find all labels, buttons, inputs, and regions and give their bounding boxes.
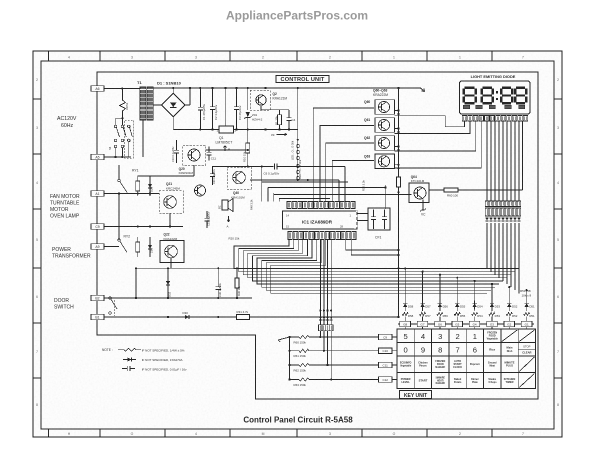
wire 5V rail segment [206,149,248,151]
wire bus IC1 bottom pins to key matrix rails [234,240,519,269]
frame right band tick marks [554,98,562,100]
resistor R57 [422,310,424,312]
wire interlock tie [116,117,123,119]
transistor Q40 KRA101M [227,167,251,189]
diode D52 [508,301,510,310]
wire rail C6 [213,165,274,167]
connector C9 on board left edge [91,224,104,230]
IC1 bottom pin row [288,232,292,240]
wire B1 row [104,316,183,318]
ceramic resonator CF1 [368,208,390,230]
wire A9 row [104,246,119,248]
wire Q64 base [274,194,412,196]
resistor R66 100 [429,189,444,191]
wire A6 to transformer primary top [104,88,140,90]
relay RY1 contact [118,179,120,181]
wire B2 branch vertical [135,268,137,298]
arrow VA [278,337,290,342]
LED chain R11 30k [296,144,299,147]
capacitor C20 0.1u50v [212,166,214,174]
diode D58 [404,301,406,310]
transistor Q62 [375,136,395,151]
drawing frame outer border [33,51,562,437]
connector A1 on board left edge [91,191,104,197]
door switch contacts [109,297,112,300]
wire A1 row [104,193,159,195]
relay RY1 coil resistor [137,176,139,181]
regulator Q1 LM7805CT [219,126,234,133]
capacitor C10 0.1u25v [176,140,178,150]
connector column C9-C12 [379,334,393,339]
connector A6 on board left edge [91,86,104,92]
wire bus left fan into IC1 top pins [261,166,263,201]
frame bottom band tick dividers [48,429,50,437]
wire bus IC1 top pins to display drivers [313,108,374,202]
transistor Q63 [375,154,395,169]
drawing frame inner border [41,61,554,429]
connector A9 on board left edge [91,244,104,250]
resistor R10 15k [247,130,249,143]
transistor Q23 KRA101M [195,185,206,196]
LED chain R12 30k [296,164,299,167]
wire Q20 to relay coil [193,165,195,176]
wire VD vertical rail [398,88,400,171]
interlock monitor switch dashed enclosure [125,120,133,158]
resistor R51 [526,310,528,312]
transistor Q2 KRA121M [250,90,270,110]
keyboard rows common vertical [289,337,291,380]
diode D32 [167,268,169,298]
frame left band tick marks [33,98,41,100]
wire DC rail [173,129,219,131]
resistor array RA1 [485,208,489,216]
IC1 IZA689DR body [283,211,356,229]
arrow A below regulator [224,146,227,152]
control unit board outline [97,72,538,399]
display annunciator boxes [463,105,469,108]
varistor VRS1 [119,100,125,111]
diode D20 [149,176,151,196]
resistor R53 [491,310,493,312]
diode D55 [456,301,458,310]
LED display module outline [460,81,531,114]
wire VB rail [136,267,399,269]
keyboard row wires with resistors [290,336,300,338]
wire Q21 to RY2 [169,213,171,227]
connector row G8-G1 [398,323,534,325]
capacitor C11 [208,147,210,153]
display colon [496,91,498,93]
zener diode Z01 HZA4-2 [247,88,249,110]
resistor R54 [474,310,476,312]
keyboard scan connector boxes [319,325,323,331]
wire C9 row [104,226,183,228]
wire digit select staircase [395,116,465,127]
bridge rectifier D1 [162,93,185,116]
relay RY2 contact [118,239,120,241]
scan noise overlay [0,0,1,1]
wire keyboard columns to rails [404,269,406,301]
relay RY2 coil resistor [137,237,139,242]
resistor R55 [456,310,458,312]
seven segment digit 2 [482,86,492,89]
transformer T1 windings [140,87,146,120]
capacitor C2 3.3u50v [212,88,214,107]
wire top supply rail [153,87,420,89]
svg-text:AppliancePartsPros.com: AppliancePartsPros.com [226,9,368,23]
seven segment digit 1 [465,86,475,89]
seven segment digit 4 [516,86,525,89]
interlock switch S1 [114,125,117,128]
resistor R1 15k [279,110,281,115]
resistor R50 3.3k [398,171,400,177]
wire Q64 emitter to VC [422,200,424,211]
wire relay chain vertical [118,194,120,241]
wire CF1 to IC1 [357,213,368,215]
transistor Q60 [375,100,395,115]
wire bridge top to rail [172,88,174,93]
connector B1 on board left edge [91,314,104,320]
capacitor C21 17u50v [206,211,208,218]
wire IC1 bottom pin stub to VD rail [346,240,399,251]
buzzer BZ [222,200,228,210]
wire regulator input drop [225,88,227,126]
wire VC riser [297,88,299,180]
diode D57 [422,301,424,310]
wire bus IC1 top pins aux [338,180,340,202]
diode D51 [526,301,528,310]
capacitor C1 470u25v [199,88,201,107]
wire rail lower [250,179,339,181]
capacitor C4 [288,110,290,118]
diode marks below resistor array [485,218,488,221]
display pin connector row [462,116,467,122]
resistor R30 15k [236,268,238,278]
diode D54 [474,301,476,310]
diode D53 [491,301,493,310]
wire A5 to interlock [104,156,131,158]
wire B2 row [104,297,252,299]
resistor R56 [439,310,441,312]
wire bus display segment columns [486,121,488,201]
supply rail end arrow VD [420,88,424,92]
KEY UNIT label box [400,391,432,399]
CONTROL UNIT label box [276,76,329,83]
IC1 top pin row [287,202,291,209]
resistor array RA1 label row [485,201,489,207]
resistor R52 [508,310,510,312]
resistor R31 4.7k [237,315,250,320]
capacitor C3 47u16v [236,88,238,107]
capacitor C6 0.1u50v [273,164,275,170]
frame top band tick dividers [48,51,50,61]
wire bridge right to rail [185,104,190,106]
capacitor C30 1u50v [217,268,219,286]
keyboard scan verticals [319,331,321,337]
wire transformer secondary to rectifier [153,104,161,106]
diode D30 [181,316,193,318]
arrow A down [227,216,230,222]
key unit table [397,329,535,389]
transistor Q20 KRW101M [183,145,206,165]
wire Q2 emitter branch [260,106,262,110]
connector B2 on board left edge [91,295,104,301]
resistor R58 [404,310,406,312]
interlock switch S2 [121,125,124,128]
connector A5 on board left edge [91,154,104,160]
wire bridge bottom to DC rail [172,117,174,130]
transistor Q61 [375,118,395,133]
diode D56 [439,301,441,310]
diode Z61 [149,237,151,257]
seven segment digit 3 [502,86,511,89]
